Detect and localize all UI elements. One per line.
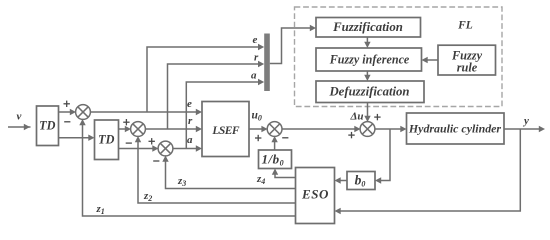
svg-text:Δu: Δu [350,111,364,123]
block 1/b0 [259,150,292,169]
sign minus S2 [126,142,132,144]
summing junction S1 [76,105,91,120]
block Defuzzification [316,81,424,103]
wire TD2 to junction S3 [119,145,159,151]
block Hydraulic cylinder [407,113,505,144]
sign plus S1 [64,101,70,107]
svg-text:a: a [251,70,257,82]
svg-text:a: a [187,134,193,146]
wire u tap to b0 [375,129,390,184]
svg-text:y: y [522,115,529,127]
svg-text:TD: TD [39,119,55,133]
dashed box FL [295,7,503,107]
sign minus S1 [64,121,70,123]
wire Defuzzification to junction S5 [364,103,370,123]
block TD2 [95,120,119,160]
wire S4 to junction S5 [282,126,361,132]
wire output y [504,126,545,132]
summing junction S5 [360,122,375,137]
wire mux to Fuzzification [270,25,316,64]
wire z4 ESO to 1/b0 [272,169,296,178]
sign plus S2 [123,119,129,125]
summing junction S4 [267,122,282,137]
sign minus S4 [282,137,288,139]
svg-text:LSEF: LSEF [211,125,239,137]
sign plus S3 [149,138,155,144]
block Fuzzy rule [438,45,496,75]
block ESO [296,168,335,224]
wire Fuzzy inference to Defuzzification [364,71,370,81]
wire z2 ESO to junction S2 [135,136,296,203]
block TD1 [37,106,59,146]
wire z1 ESO to junction S1 [79,119,295,216]
svg-text:v: v [17,111,22,123]
wire z3 ESO to junction S3 [162,156,295,189]
sign plus S5 top [374,114,380,120]
summing junction S2 [131,122,146,137]
wire Fuzzification to Fuzzy inference [364,37,370,48]
block Fuzzy inference [316,48,422,71]
block LSEF [202,102,249,157]
wire TD1 to junction S1 [59,109,77,115]
sign plus S5 left [348,132,354,138]
svg-text:Defuzzification: Defuzzification [328,85,409,99]
wire r tap to mux [168,61,265,129]
summing junction S3 [158,141,173,156]
wire y feedback to ESO [335,129,521,214]
svg-text:rule: rule [457,61,478,75]
wire TD2 to junction S2 [119,126,132,132]
svg-text:r: r [188,115,193,127]
svg-text:e: e [187,98,192,110]
wire r line S2 to LSEF [145,126,202,132]
wire S5 to Hydraulic cylinder [375,126,407,132]
wire e tap to mux [147,44,264,112]
wire LSEF to junction S4 [249,126,268,132]
wire TD1 to TD2 [59,135,95,141]
wire a tap to mux [186,79,264,149]
wire Fuzzy rule to Fuzzy inference [422,57,439,63]
wire v input [8,124,31,130]
wire e line S1 to LSEF [90,109,202,115]
sign plus S4 [255,135,261,141]
svg-text:TD: TD [98,133,114,147]
block b0 [347,172,375,190]
svg-text:ESO: ESO [301,187,329,202]
svg-text:Fuzzification: Fuzzification [332,20,403,34]
wire a line S3 to LSEF [173,145,203,151]
svg-text:r: r [254,52,259,64]
svg-text:Hydraulic cylinder: Hydraulic cylinder [408,122,502,136]
sign minus S3 [153,160,159,162]
wire 1/b0 to junction S4 [271,136,277,150]
svg-text:Fuzzy inference: Fuzzy inference [329,53,410,67]
svg-text:FL: FL [457,20,473,32]
block Fuzzification [316,18,421,38]
svg-text:e: e [253,34,258,46]
mux bar [264,34,270,92]
wire b0 to ESO [335,177,348,183]
